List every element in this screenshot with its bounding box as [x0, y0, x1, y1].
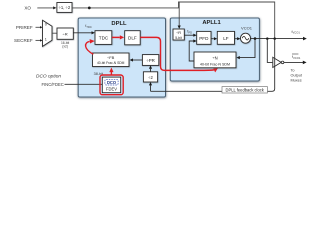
- PFD box: [197, 31, 211, 44]
- wire TDC to DLF (red): [112, 36, 120, 38]
- node loop crossing dot: [273, 37, 276, 40]
- wire N divider to PFD feedback: [189, 41, 194, 61]
- svg-text:÷N: ÷N: [212, 55, 217, 60]
- node inverter tap dot: [266, 37, 269, 40]
- svg-text:LF: LF: [223, 36, 229, 41]
- wire PR to FB divider: [133, 59, 143, 61]
- svg-text:To: To: [291, 69, 295, 73]
- TDC box: [95, 31, 112, 45]
- wire PFD to LF: [211, 38, 214, 40]
- svg-text:5-bit: 5-bit: [175, 36, 182, 40]
- DPLL container box: [78, 18, 165, 97]
- wire DLF to APLL1 N SDM (red): [140, 37, 214, 70]
- svg-text:÷FB: ÷FB: [107, 55, 115, 60]
- wire XO top run to right side: [72, 2, 275, 38]
- wire PRIREF to mux: [36, 26, 41, 28]
- wire DCO to FB divider (red): [110, 72, 112, 75]
- svg-text:PRIREF: PRIREF: [16, 25, 33, 30]
- wire XO drop into APLL R divider: [178, 2, 180, 26]
- wire FB divider to TDC feedback (red): [86, 41, 94, 54]
- svg-text:40-bit Frac-N SDM: 40-bit Frac-N SDM: [97, 61, 125, 65]
- wire mux to R divider: [52, 32, 57, 34]
- wire loop riser into div2: [150, 85, 152, 91]
- wire LF to VCO: [235, 38, 238, 40]
- divider R 5-bit box (APLL1): [173, 29, 184, 40]
- LF box: [217, 31, 234, 44]
- svg-text:40-bit Frac-N SDM: 40-bit Frac-N SDM: [200, 62, 230, 66]
- wire SECREF to mux: [36, 39, 41, 41]
- node junction dot on XO wire: [88, 7, 91, 10]
- svg-text:DLF: DLF: [128, 36, 137, 41]
- svg-text:÷R: ÷R: [176, 30, 181, 35]
- svg-text:(x2): (x2): [62, 45, 68, 49]
- divider PR box: [142, 55, 158, 66]
- divider N SDM box: [194, 52, 236, 68]
- svg-text:DPLL: DPLL: [111, 21, 127, 27]
- svg-text:DPLL feedback clock: DPLL feedback clock: [226, 88, 265, 93]
- DCO FDEV box with red highlight outline: [100, 75, 123, 95]
- wire VCO junction down into N divider: [240, 39, 255, 58]
- divider FB 40-bit SDM box: [93, 53, 130, 67]
- label box DPLL feedback clock: [222, 87, 267, 93]
- svg-text:APLL1: APLL1: [202, 20, 221, 26]
- svg-text:FDEV: FDEV: [106, 87, 117, 92]
- wire XO to divider: [37, 7, 54, 9]
- svg-text:PFD: PFD: [199, 36, 209, 41]
- svg-text:÷PR: ÷PR: [146, 58, 155, 63]
- wire inverter output: [284, 61, 303, 63]
- svg-text:0: 0: [45, 23, 47, 27]
- svg-text:DCO option: DCO option: [36, 74, 61, 80]
- svg-text:Muxes: Muxes: [291, 79, 302, 83]
- node junction to N divider: [254, 37, 257, 40]
- svg-text:VCO1: VCO1: [241, 25, 253, 30]
- wire VCO1 output: [251, 38, 304, 40]
- svg-text:DCO: DCO: [107, 80, 117, 85]
- svg-text:÷R: ÷R: [63, 32, 68, 37]
- oscillator VCO1 circle: [241, 33, 251, 43]
- wire R divider to TDC: [73, 32, 92, 34]
- APLL1 container box: [170, 18, 259, 81]
- wire DPLL feedback loop: [151, 39, 275, 92]
- svg-text:÷1, ÷2: ÷1, ÷2: [59, 5, 71, 10]
- DLF box: [125, 31, 141, 45]
- divider R 16-bit box: [57, 28, 73, 39]
- wire tap to inverter: [267, 39, 272, 63]
- wire FINC/FDEC to DCO box: [65, 83, 103, 85]
- wire R5 to PFD: [184, 34, 193, 36]
- wire div2 to PR: [150, 69, 152, 72]
- divider XO x1 x2 box: [57, 3, 72, 13]
- svg-text:1: 1: [45, 37, 47, 41]
- svg-text:FINC/FDEC: FINC/FDEC: [41, 82, 63, 87]
- svg-text:Output: Output: [291, 74, 303, 78]
- svg-text:÷2: ÷2: [148, 75, 153, 80]
- mux reference selector: [43, 20, 53, 46]
- svg-text:XO: XO: [24, 5, 31, 10]
- divider by-2 box: [143, 72, 157, 82]
- inverter buffer: [273, 57, 284, 67]
- svg-text:SECREF: SECREF: [14, 38, 33, 43]
- svg-text:TDC: TDC: [99, 36, 109, 41]
